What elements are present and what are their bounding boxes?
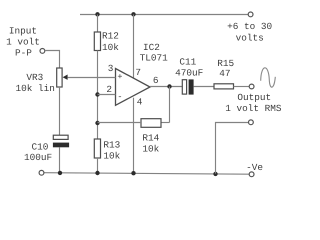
label R15 47 [217,58,234,79]
node junction top rail / R12 [95,12,99,16]
svg-text:1 volt RMS: 1 volt RMS [225,103,282,114]
resistor R15 [214,84,234,89]
potentiometer VR3 [57,68,68,87]
svg-text:10k: 10k [102,42,119,53]
pin 6 label [153,75,159,86]
label -Ve [246,162,263,173]
wire VR3 bottom to C10 [59,87,61,135]
pin 4 label [137,96,143,107]
sine wave symbol [261,68,276,87]
wire R14 right lead [161,122,170,124]
label Output 1 volt RMS [225,92,282,114]
svg-text:10k: 10k [103,151,120,162]
terminal output return open circle [249,120,254,125]
svg-text:VR3: VR3 [26,72,43,83]
svg-text:C10: C10 [32,142,49,153]
label +6 to 30 volts [227,21,272,43]
wire pin7 supply [133,15,135,79]
resistor R14 [141,119,161,128]
wire R13 bottom lead [97,158,99,173]
wire R15 to output terminal [234,86,250,88]
svg-text:100uF: 100uF [24,152,52,163]
svg-text:volts: volts [236,33,264,44]
svg-text:IC2: IC2 [143,42,160,53]
node junction top rail / pin7 [131,12,135,16]
capacitor C10 [53,135,69,147]
label R14 10k [142,132,159,154]
wire wiper to pin3 [67,77,115,79]
node junction pin4 / rail [131,171,135,175]
svg-text:10k: 10k [142,144,159,155]
terminal bottom-left open circle [39,170,44,175]
svg-text:6: 6 [153,75,159,86]
node junction feedback tap [167,84,171,88]
svg-text:-Ve: -Ve [246,162,263,173]
label C10 100uF [24,142,52,164]
pin 2 label [106,84,112,95]
svg-text:470uF: 470uF [175,68,203,79]
svg-text:7: 7 [135,67,141,78]
wire output return to rail [216,123,249,174]
svg-text:47: 47 [219,68,230,79]
wire R14 left to divider node [98,122,142,124]
node junction C10 / rail [58,171,62,175]
svg-text:+: + [117,72,122,82]
pin 7 label [135,67,141,78]
terminal output open circle [249,84,254,89]
svg-text:C11: C11 [179,56,196,67]
svg-text:P-P: P-P [15,48,32,59]
svg-text:Input: Input [9,25,37,36]
svg-text:4: 4 [137,96,143,107]
wire pin6 output [150,86,182,88]
node junction feedback / divider [95,121,99,125]
wire C10 bottom to rail [59,147,61,173]
capacitor C11 [182,79,193,94]
svg-text:R14: R14 [142,132,159,143]
resistor R12 [94,32,100,51]
wire R12 bottom to R13 top (bias chain) [97,51,99,140]
op-amp IC2 [116,69,151,106]
label IC2 TL071 [140,42,169,64]
wire pin4 to -Ve rail [133,98,135,174]
svg-text:R12: R12 [102,31,119,42]
wire bottom -Ve rail [44,173,249,175]
node junction output return / rail [213,172,217,176]
svg-text:10k lin: 10k lin [16,83,55,94]
resistor R13 [94,139,100,158]
node junction pin2 / divider [95,92,99,96]
svg-text:+6 to 30: +6 to 30 [227,21,272,32]
wire pin2 to divider node [98,94,116,96]
terminal +V open circle [248,12,253,17]
svg-text:1 volt: 1 volt [6,37,40,48]
node junction R13 / rail [95,171,99,175]
svg-text:TL071: TL071 [140,53,169,64]
wire top supply rail [80,14,248,16]
svg-text:R13: R13 [103,139,120,150]
label C11 470uF [175,56,203,78]
svg-text:3: 3 [108,63,114,74]
terminal input open circle [40,49,45,54]
wire feedback down [169,87,171,123]
svg-text:Output: Output [237,92,271,103]
label R13 10k [103,139,120,161]
wire C11 to R15 [194,86,214,88]
wire input to VR3 top [45,51,60,69]
label Input 1 volt P-P [6,25,40,58]
svg-text:-: - [117,92,122,102]
svg-text:2: 2 [106,84,112,95]
label R12 10k [102,31,119,53]
wire R12 top lead [97,15,99,33]
terminal -Ve open circle [249,172,254,177]
pin 3 label [108,63,114,74]
label VR3 10k lin [16,72,55,94]
